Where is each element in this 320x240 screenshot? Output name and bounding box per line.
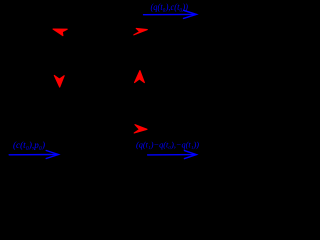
red arrowhead A (top-left, pointing left) [53, 29, 67, 36]
blue arrow bottom-right [148, 151, 197, 159]
arrowhead barbs [184, 10, 197, 18]
red arrowhead D (mid-right, pointing up) [135, 71, 145, 83]
red arrowhead E (bottom-right, pointing right) [134, 125, 147, 133]
blue arrow top-right [144, 10, 197, 18]
wire shaft [9, 154, 57, 156]
arrowhead barbs [184, 151, 196, 159]
svg-text:(c(t₀),p₀): (c(t₀),p₀) [13, 140, 45, 151]
wire shaft [148, 154, 196, 156]
wire shaft [144, 13, 196, 15]
blue arrow bottom-left [9, 151, 58, 159]
red arrowhead C (mid-left, pointing down) [54, 75, 64, 87]
svg-text:(q(t₀),c(t₀)): (q(t₀),c(t₀)) [151, 2, 189, 13]
red arrowhead B (top-right, pointing right) [134, 28, 148, 35]
svg-text:(q(t₁)−q(t₀),−q(t₁)): (q(t₁)−q(t₀),−q(t₁)) [136, 140, 199, 150]
arrowhead barbs [46, 151, 58, 159]
